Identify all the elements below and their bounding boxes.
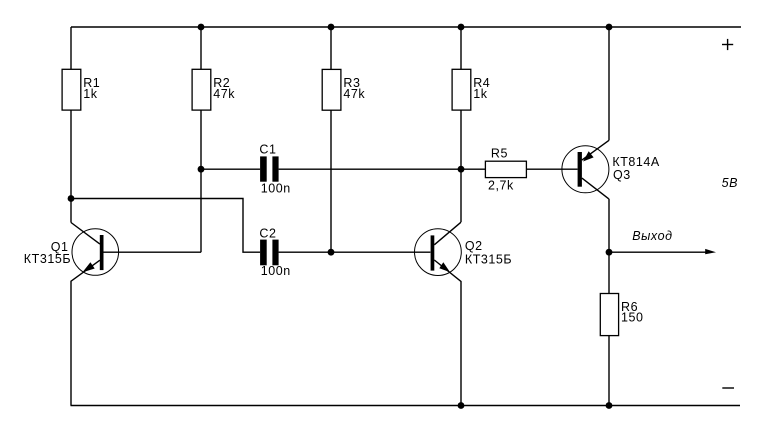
wire R1 top lead <box>70 27 72 69</box>
resistor R5 <box>485 147 526 193</box>
node bottom rail Q2 emitter <box>458 402 465 409</box>
wire R4 top lead <box>460 27 462 69</box>
wire C2 right lead to Q2 base <box>279 251 431 253</box>
node top rail R2 <box>198 24 205 31</box>
svg-text:150: 150 <box>621 311 644 325</box>
wire R2 bottom through C1 node down to Q1 base row <box>200 110 202 252</box>
wire R2 top lead <box>200 27 202 69</box>
svg-text:Q3: Q3 <box>613 168 631 182</box>
svg-text:Q2: Q2 <box>465 239 483 253</box>
wire R6 bottom lead <box>608 336 610 406</box>
node bottom rail R6 <box>606 402 613 409</box>
wire R5 right lead to Q3 base <box>526 168 577 170</box>
node output Q3 collector <box>606 249 613 256</box>
output arrow Выход <box>609 229 716 254</box>
wire output node to R6 <box>608 252 610 293</box>
power minus symbol <box>722 387 734 389</box>
transistor Q1 <box>24 223 201 406</box>
svg-text:КТ814А: КТ814А <box>612 155 660 169</box>
power plus symbol <box>722 39 733 50</box>
capacitor C2 <box>259 227 290 279</box>
transistor Q3 <box>562 27 660 252</box>
wire R3 top lead <box>330 27 332 69</box>
capacitor C1 <box>259 142 290 195</box>
node top rail Q3 emitter <box>606 24 613 31</box>
resistor R2 <box>192 69 235 110</box>
wire C1 left lead from R2 column <box>201 168 260 170</box>
node top rail R4 <box>458 24 465 31</box>
resistor R1 <box>62 69 100 110</box>
svg-text:R5: R5 <box>491 147 508 161</box>
svg-text:47k: 47k <box>343 87 365 101</box>
wire bottom negative rail <box>71 405 741 407</box>
svg-text:100n: 100n <box>261 181 291 195</box>
svg-text:100n: 100n <box>261 264 291 278</box>
node C1 left R2 <box>198 166 205 173</box>
svg-text:C2: C2 <box>259 227 276 241</box>
wire R5 left lead <box>461 168 485 170</box>
svg-text:1k: 1k <box>83 87 98 101</box>
wire R1 bottom to Q1 collector node <box>70 110 72 222</box>
svg-text:2,7k: 2,7k <box>488 178 514 192</box>
svg-text:Выход: Выход <box>632 229 672 243</box>
wire top positive rail <box>71 26 741 28</box>
node top rail R3 <box>328 24 335 31</box>
svg-text:КТ315Б: КТ315Б <box>465 253 512 267</box>
wire R4 bottom through node to Q2 collector bend <box>460 110 462 222</box>
wire C1 right lead to R4/R5 node <box>279 168 461 170</box>
node Q2 base R3 C2 <box>328 249 335 256</box>
resistor R3 <box>322 69 365 110</box>
node C1 right R4 R5 <box>458 166 465 173</box>
svg-text:5В: 5В <box>722 176 738 190</box>
svg-text:C1: C1 <box>259 142 276 156</box>
svg-text:КТ315Б: КТ315Б <box>24 252 71 266</box>
wire R3 bottom to Q2 base node <box>330 110 332 252</box>
wire Q1 collector node step to C2 left plate <box>71 199 260 253</box>
svg-text:1k: 1k <box>473 87 488 101</box>
svg-text:47k: 47k <box>213 87 235 101</box>
node Q1 collector <box>68 195 75 202</box>
resistor R6 <box>600 294 643 336</box>
transistor Q2 <box>415 222 513 405</box>
resistor R4 <box>452 69 490 110</box>
